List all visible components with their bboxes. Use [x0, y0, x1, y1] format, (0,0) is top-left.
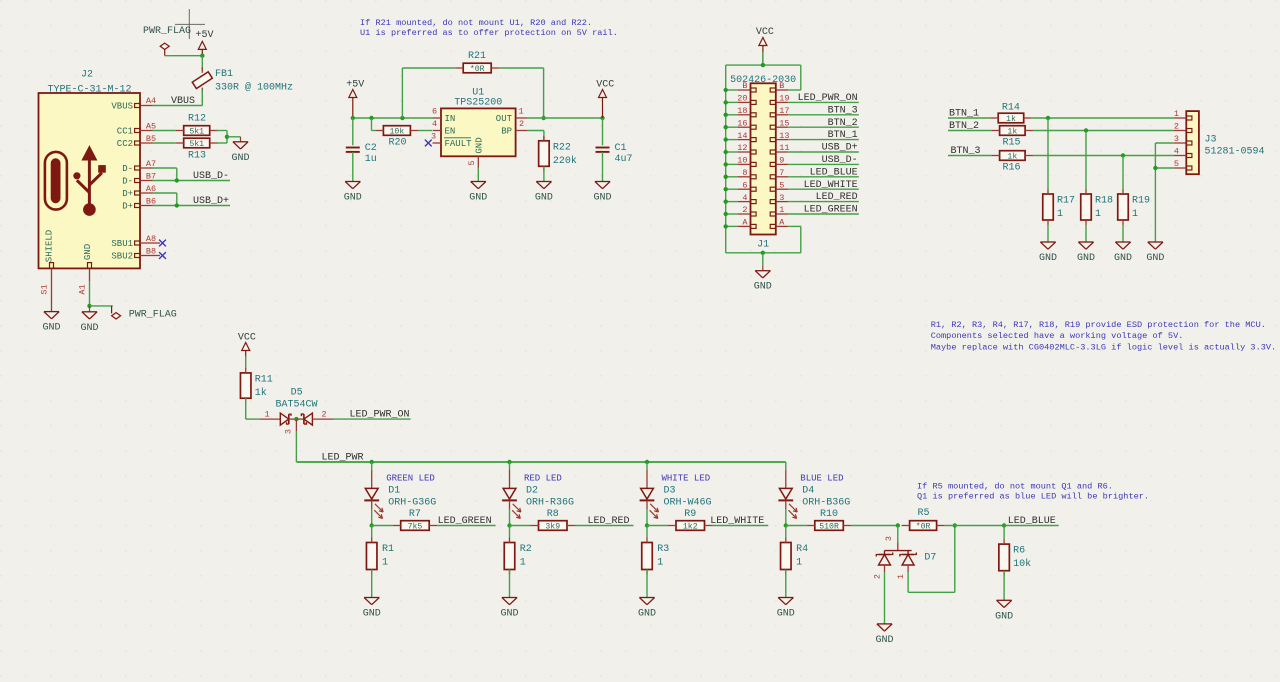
svg-text:1: 1 [1174, 109, 1179, 119]
svg-text:1u: 1u [365, 154, 377, 165]
svg-text:1k2: 1k2 [683, 522, 698, 532]
svg-text:U1 is preferred as to offer pr: U1 is preferred as to offer protection o… [360, 28, 618, 38]
svg-text:D-: D- [122, 177, 133, 187]
svg-text:GND: GND [638, 609, 656, 620]
svg-text:7k5: 7k5 [408, 522, 423, 532]
svg-text:1: 1 [796, 558, 802, 569]
svg-text:ORH-G36G: ORH-G36G [388, 497, 436, 508]
svg-text:10: 10 [737, 156, 747, 166]
svg-text:ORH-B36G: ORH-B36G [802, 497, 850, 508]
svg-text:CC1: CC1 [117, 127, 133, 137]
svg-text:1: 1 [382, 558, 388, 569]
svg-text:USB_D-: USB_D- [822, 155, 858, 166]
svg-text:SBU1: SBU1 [111, 239, 133, 249]
svg-text:GND: GND [42, 323, 60, 334]
svg-text:R10: R10 [820, 509, 838, 520]
svg-text:SBU2: SBU2 [111, 252, 133, 262]
svg-text:GND: GND [231, 153, 249, 164]
svg-text:*0R: *0R [470, 64, 485, 74]
svg-text:GND: GND [344, 193, 362, 204]
svg-text:15: 15 [779, 118, 789, 128]
svg-text:2: 2 [742, 205, 747, 215]
svg-text:B8: B8 [146, 246, 156, 256]
svg-text:1: 1 [264, 410, 269, 420]
svg-text:LED_GREEN: LED_GREEN [804, 205, 858, 216]
svg-text:7: 7 [779, 168, 784, 178]
svg-text:GND: GND [1039, 253, 1057, 264]
svg-text:510R: 510R [819, 523, 839, 532]
svg-text:A4: A4 [146, 96, 156, 106]
svg-text:17: 17 [779, 106, 789, 116]
svg-text:Q1 is preferred as blue LED wi: Q1 is preferred as blue LED will be brig… [917, 492, 1149, 502]
svg-text:220k: 220k [553, 155, 577, 167]
svg-text:R5: R5 [917, 508, 929, 519]
svg-text:R16: R16 [1002, 163, 1020, 174]
svg-text:3: 3 [884, 536, 894, 541]
svg-text:4: 4 [432, 119, 437, 129]
svg-text:R8: R8 [547, 509, 559, 520]
svg-text:A1: A1 [78, 284, 88, 294]
svg-text:10k: 10k [390, 127, 405, 137]
svg-text:R14: R14 [1002, 103, 1020, 114]
svg-text:R20: R20 [388, 138, 406, 149]
svg-text:1: 1 [1132, 209, 1138, 220]
svg-text:LED_BLUE: LED_BLUE [1008, 516, 1056, 527]
svg-text:BTN_3: BTN_3 [828, 105, 858, 116]
svg-text:12: 12 [737, 143, 747, 153]
svg-text:Maybe replace with CG0402MLC-3: Maybe replace with CG0402MLC-3.3LG if lo… [931, 342, 1277, 352]
svg-text:GND: GND [995, 611, 1013, 622]
svg-text:2: 2 [873, 574, 883, 579]
svg-text:VCC: VCC [756, 27, 774, 38]
svg-text:GND: GND [80, 323, 98, 334]
svg-text:GND: GND [363, 609, 381, 620]
svg-text:A: A [742, 218, 748, 228]
svg-text:4: 4 [1174, 147, 1179, 157]
svg-text:1: 1 [520, 558, 526, 569]
svg-text:1k: 1k [1006, 114, 1016, 124]
svg-text:4u7: 4u7 [615, 154, 633, 165]
svg-text:16: 16 [737, 118, 747, 128]
svg-text:TYPE-C-31-M-12: TYPE-C-31-M-12 [47, 84, 131, 95]
svg-text:FB1: FB1 [215, 69, 233, 80]
svg-text:R12: R12 [188, 114, 206, 125]
svg-text:2: 2 [1174, 122, 1179, 132]
svg-text:R19: R19 [1132, 196, 1150, 207]
svg-text:B: B [742, 81, 747, 91]
svg-text:LED_PWR_ON: LED_PWR_ON [798, 93, 858, 104]
svg-text:LED_BLUE: LED_BLUE [810, 167, 858, 178]
svg-text:C2: C2 [365, 143, 377, 154]
svg-text:18: 18 [737, 106, 747, 116]
svg-text:R18: R18 [1095, 196, 1113, 207]
svg-text:J2: J2 [81, 69, 93, 80]
svg-text:USB_D-: USB_D- [193, 171, 229, 182]
svg-text:LED_PWR: LED_PWR [322, 453, 364, 464]
svg-text:+5V: +5V [195, 30, 213, 41]
svg-text:3k9: 3k9 [545, 522, 560, 532]
svg-text:D-: D- [122, 164, 133, 174]
svg-text:B: B [779, 81, 784, 91]
svg-text:VBUS: VBUS [171, 96, 195, 107]
svg-text:14: 14 [737, 131, 747, 141]
svg-text:5k1: 5k1 [189, 127, 204, 137]
svg-text:D2: D2 [526, 485, 538, 496]
svg-text:IN: IN [445, 114, 456, 124]
svg-text:PWR_FLAG: PWR_FLAG [143, 26, 191, 37]
svg-text:EN: EN [445, 127, 456, 137]
svg-text:LED_RED: LED_RED [816, 192, 858, 203]
svg-text:R1: R1 [382, 544, 394, 555]
svg-text:PWR_FLAG: PWR_FLAG [129, 310, 177, 321]
svg-text:WHITE LED: WHITE LED [662, 473, 711, 483]
svg-text:1: 1 [1095, 209, 1101, 220]
svg-text:GND: GND [83, 244, 93, 260]
svg-text:R3: R3 [657, 544, 669, 555]
svg-text:2: 2 [519, 119, 524, 129]
svg-text:RED LED: RED LED [524, 473, 562, 483]
svg-text:+5V: +5V [346, 80, 364, 91]
svg-text:D+: D+ [122, 189, 133, 199]
svg-text:ORH-R36G: ORH-R36G [526, 497, 574, 508]
svg-text:GND: GND [535, 193, 553, 204]
svg-text:R11: R11 [255, 374, 273, 385]
svg-text:FAULT: FAULT [445, 139, 473, 149]
svg-text:A: A [779, 218, 785, 228]
svg-text:BLUE LED: BLUE LED [800, 473, 843, 483]
svg-text:1: 1 [1057, 209, 1063, 220]
svg-text:VBUS: VBUS [111, 102, 133, 112]
svg-text:10k: 10k [1013, 558, 1031, 570]
svg-text:8: 8 [742, 168, 747, 178]
svg-text:VCC: VCC [238, 333, 256, 344]
svg-text:R22: R22 [553, 142, 571, 153]
svg-text:4: 4 [742, 193, 747, 203]
svg-text:GND: GND [1146, 253, 1164, 264]
svg-text:GND: GND [875, 635, 893, 646]
svg-text:J3: J3 [1205, 135, 1217, 146]
svg-text:6: 6 [742, 180, 747, 190]
svg-text:C1: C1 [615, 143, 627, 154]
svg-text:GND: GND [1114, 253, 1132, 264]
svg-text:51281-0594: 51281-0594 [1205, 147, 1265, 158]
svg-text:J1: J1 [757, 240, 769, 251]
svg-text:R21: R21 [468, 51, 486, 62]
svg-text:2: 2 [321, 410, 326, 420]
svg-text:9: 9 [779, 156, 784, 166]
svg-text:6: 6 [432, 107, 437, 117]
svg-text:1: 1 [657, 558, 663, 569]
svg-text:LED_PWR_ON: LED_PWR_ON [349, 410, 409, 421]
svg-text:19: 19 [779, 94, 789, 104]
svg-text:1: 1 [896, 574, 906, 579]
svg-text:USB_D+: USB_D+ [193, 196, 229, 207]
svg-text:R6: R6 [1013, 546, 1025, 557]
svg-text:Components selected have a wor: Components selected have a working volta… [931, 331, 1184, 341]
svg-text:R1, R2, R3, R4, R17, R18, R19: R1, R2, R3, R4, R17, R18, R19 provide ES… [931, 320, 1266, 330]
svg-text:*0R: *0R [916, 522, 931, 532]
svg-text:502426-2030: 502426-2030 [730, 75, 796, 86]
svg-text:1k: 1k [1007, 127, 1017, 137]
svg-text:LED_WHITE: LED_WHITE [804, 180, 858, 191]
svg-text:5: 5 [1174, 159, 1179, 169]
svg-text:BAT54CW: BAT54CW [275, 400, 317, 411]
svg-text:R9: R9 [684, 509, 696, 520]
svg-text:3: 3 [779, 193, 784, 203]
svg-text:GND: GND [469, 193, 487, 204]
svg-text:D3: D3 [664, 485, 676, 496]
svg-text:3: 3 [284, 429, 294, 434]
svg-text:GND: GND [500, 609, 518, 620]
svg-text:5k1: 5k1 [189, 139, 204, 149]
svg-text:ORH-W46G: ORH-W46G [664, 497, 712, 508]
svg-text:D7: D7 [924, 553, 936, 564]
svg-text:3: 3 [1174, 134, 1179, 144]
svg-text:OUT: OUT [496, 114, 513, 124]
svg-text:R15: R15 [1002, 138, 1020, 149]
svg-text:SHIELD: SHIELD [44, 230, 54, 262]
svg-text:LED_RED: LED_RED [587, 516, 629, 527]
svg-text:5: 5 [467, 160, 477, 165]
svg-text:A8: A8 [146, 234, 156, 244]
svg-text:USB_D+: USB_D+ [822, 143, 858, 154]
svg-text:D4: D4 [802, 485, 814, 496]
svg-text:11: 11 [779, 143, 789, 153]
svg-text:LED_WHITE: LED_WHITE [710, 516, 764, 527]
svg-text:GND: GND [593, 193, 611, 204]
svg-text:R7: R7 [409, 509, 421, 520]
svg-text:LED_GREEN: LED_GREEN [438, 516, 492, 527]
svg-text:D+: D+ [122, 202, 133, 212]
svg-text:VCC: VCC [596, 80, 614, 91]
svg-text:GND: GND [777, 609, 795, 620]
svg-text:GND: GND [1077, 253, 1095, 264]
svg-text:R17: R17 [1057, 196, 1075, 207]
svg-text:R4: R4 [796, 544, 808, 555]
svg-text:D1: D1 [388, 485, 400, 496]
svg-text:20: 20 [737, 94, 747, 104]
svg-text:If R5 mounted, do not mount Q1: If R5 mounted, do not mount Q1 and R6. [917, 482, 1113, 492]
svg-text:BTN_1: BTN_1 [828, 130, 858, 141]
svg-text:CC2: CC2 [117, 139, 133, 149]
svg-text:If R21 mounted, do not mount U: If R21 mounted, do not mount U1, R20 and… [360, 18, 592, 28]
svg-text:330R @ 100MHz: 330R @ 100MHz [215, 82, 293, 94]
svg-text:5: 5 [779, 180, 784, 190]
svg-text:TPS25200: TPS25200 [454, 98, 502, 109]
svg-text:1: 1 [779, 205, 784, 215]
svg-text:GND: GND [475, 137, 485, 153]
svg-text:S1: S1 [40, 284, 50, 294]
svg-text:BTN_2: BTN_2 [828, 118, 858, 129]
svg-text:13: 13 [779, 131, 789, 141]
svg-text:1: 1 [518, 107, 523, 117]
svg-text:1k: 1k [255, 387, 267, 399]
svg-text:BP: BP [501, 127, 512, 137]
svg-text:R13: R13 [188, 151, 206, 162]
svg-text:R2: R2 [520, 544, 532, 555]
svg-text:GND: GND [754, 282, 772, 293]
svg-text:D5: D5 [291, 388, 303, 399]
svg-text:GREEN LED: GREEN LED [386, 473, 435, 483]
svg-text:1k: 1k [1007, 152, 1017, 162]
